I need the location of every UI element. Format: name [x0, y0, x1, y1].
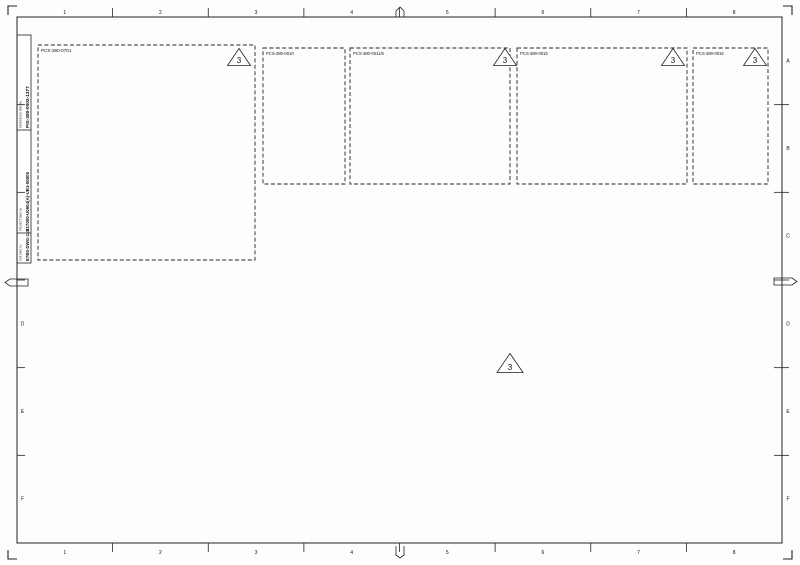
svg-text:2: 2 [159, 10, 162, 16]
svg-text:5: 5 [446, 550, 449, 556]
svg-text:3: 3 [671, 56, 676, 65]
svg-text:1: 1 [63, 10, 66, 16]
svg-text:5: 5 [446, 10, 449, 16]
svg-text:PCS-380-0010: PCS-380-0010 [266, 51, 294, 56]
svg-text:2: 2 [159, 550, 162, 556]
svg-text:4: 4 [350, 550, 353, 556]
svg-text:1: 1 [63, 550, 66, 556]
svg-text:6: 6 [542, 550, 545, 556]
svg-text:PCS-380-0701: PCS-380-0701 [41, 48, 72, 53]
svg-text:PROJECT DWG No.: PROJECT DWG No. [19, 207, 23, 231]
svg-text:PCS-380-0016: PCS-380-0016 [696, 51, 724, 56]
svg-text:3: 3 [255, 550, 258, 556]
svg-text:4: 4 [350, 10, 353, 16]
svg-text:REFERENCE DWG No.: REFERENCE DWG No. [19, 100, 23, 128]
svg-text:E7B0-DWG-119: E7B0-DWG-119 [25, 229, 30, 261]
svg-text:F: F [21, 497, 24, 503]
svg-text:317000-U0604(A)-UB1-00005: 317000-U0604(A)-UB1-00005 [25, 171, 30, 231]
svg-text:7: 7 [637, 550, 640, 556]
svg-text:PIS-380-0002-1377: PIS-380-0002-1377 [25, 86, 31, 128]
svg-text:D: D [786, 321, 790, 327]
svg-text:6: 6 [542, 10, 545, 16]
svg-text:PCS-380-0011/6: PCS-380-0011/6 [353, 51, 385, 56]
svg-text:8: 8 [733, 550, 736, 556]
svg-text:3: 3 [508, 363, 513, 372]
svg-text:7: 7 [637, 10, 640, 16]
svg-text:3: 3 [255, 10, 258, 16]
svg-text:3: 3 [753, 56, 758, 65]
svg-text:3: 3 [237, 56, 242, 65]
svg-text:F: F [786, 497, 789, 503]
svg-text:NSK DWG No.: NSK DWG No. [19, 244, 23, 261]
svg-text:PCS-380-0015: PCS-380-0015 [520, 51, 548, 56]
svg-text:8: 8 [733, 10, 736, 16]
svg-text:C: C [786, 234, 790, 240]
svg-text:3: 3 [503, 56, 508, 65]
svg-text:D: D [21, 321, 25, 327]
